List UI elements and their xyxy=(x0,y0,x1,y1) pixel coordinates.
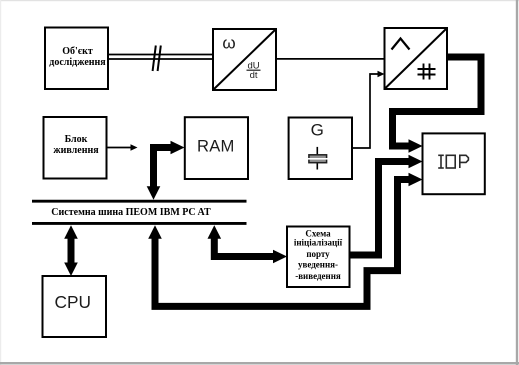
page border frame (decorative) xyxy=(0,0,519,1)
block CPU xyxy=(43,276,107,337)
break symbol (double slash) on line xyxy=(153,46,161,72)
block OBJ "Об'єкт дослідження" xyxy=(45,28,108,90)
svg-text:живлення: живлення xyxy=(53,145,99,156)
ADC U1 (analog/digital box) xyxy=(385,28,448,89)
svg-text:Системна шина ПЕОМ IBM PC AT: Системна шина ПЕОМ IBM PC AT xyxy=(51,207,211,218)
wire: clock G to ADC (thin, arrow) xyxy=(352,71,385,148)
svg-text:ініціалізації: ініціалізації xyxy=(294,238,343,248)
thick wire: CPU to bus (both-end arrows) xyxy=(64,225,78,276)
svg-text:G: G xyxy=(311,121,324,140)
svg-text:дослідження: дослідження xyxy=(49,57,106,68)
block INIT "Схема ініціалізації порту уведення-виведення" xyxy=(287,227,350,288)
thick wire: INIT to IOP (middle arrow) xyxy=(350,155,423,255)
svg-text:Об'єкт: Об'єкт xyxy=(62,46,93,57)
thick wire: bus to IOP (staircase, bottom arrow) xyxy=(148,173,422,307)
converter W1 (omega -> dU/dt) xyxy=(213,29,276,90)
svg-text:уведення-: уведення- xyxy=(298,260,338,270)
wire: W1 to ADC xyxy=(276,58,385,60)
svg-text:ω: ω xyxy=(222,34,235,53)
block IOP xyxy=(423,133,485,194)
wire: double line from OBJ to sensor W1 xyxy=(108,55,213,60)
svg-text:dt: dt xyxy=(250,70,258,81)
svg-text:RAM: RAM xyxy=(197,137,234,156)
thick wire: bus to RAM (both-end arrows) xyxy=(147,141,185,200)
system bus (two lines) "Системна шина ПЕОМ IBM PC AT" xyxy=(32,201,247,223)
block PSU "Блок живлення" xyxy=(44,117,107,179)
block RAM xyxy=(185,117,248,179)
wire: PSU thin arrow to RAM feed line xyxy=(107,144,138,151)
svg-text:CPU: CPU xyxy=(55,292,92,312)
svg-text:порту: порту xyxy=(306,249,330,259)
thick wire: bus to INIT (both-end arrows) xyxy=(208,225,288,263)
thick wire: ADC to IOP (top arrow) xyxy=(393,57,482,153)
svg-text:-виведення: -виведення xyxy=(295,271,341,281)
generator G (quartz clock) xyxy=(289,118,352,180)
svg-text:Блок: Блок xyxy=(65,134,88,145)
